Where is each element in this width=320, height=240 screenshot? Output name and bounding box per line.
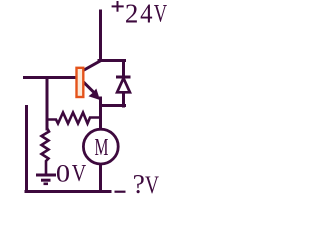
svg-text:V: V [154, 0, 168, 27]
svg-text:2: 2 [125, 0, 138, 28]
svg-text:M: M [95, 135, 109, 161]
svg-text:V: V [145, 170, 159, 199]
svg-text:V: V [72, 160, 87, 187]
svg-text:4: 4 [140, 0, 153, 28]
svg-text:0: 0 [56, 160, 70, 188]
svg-text:?: ? [133, 168, 145, 199]
